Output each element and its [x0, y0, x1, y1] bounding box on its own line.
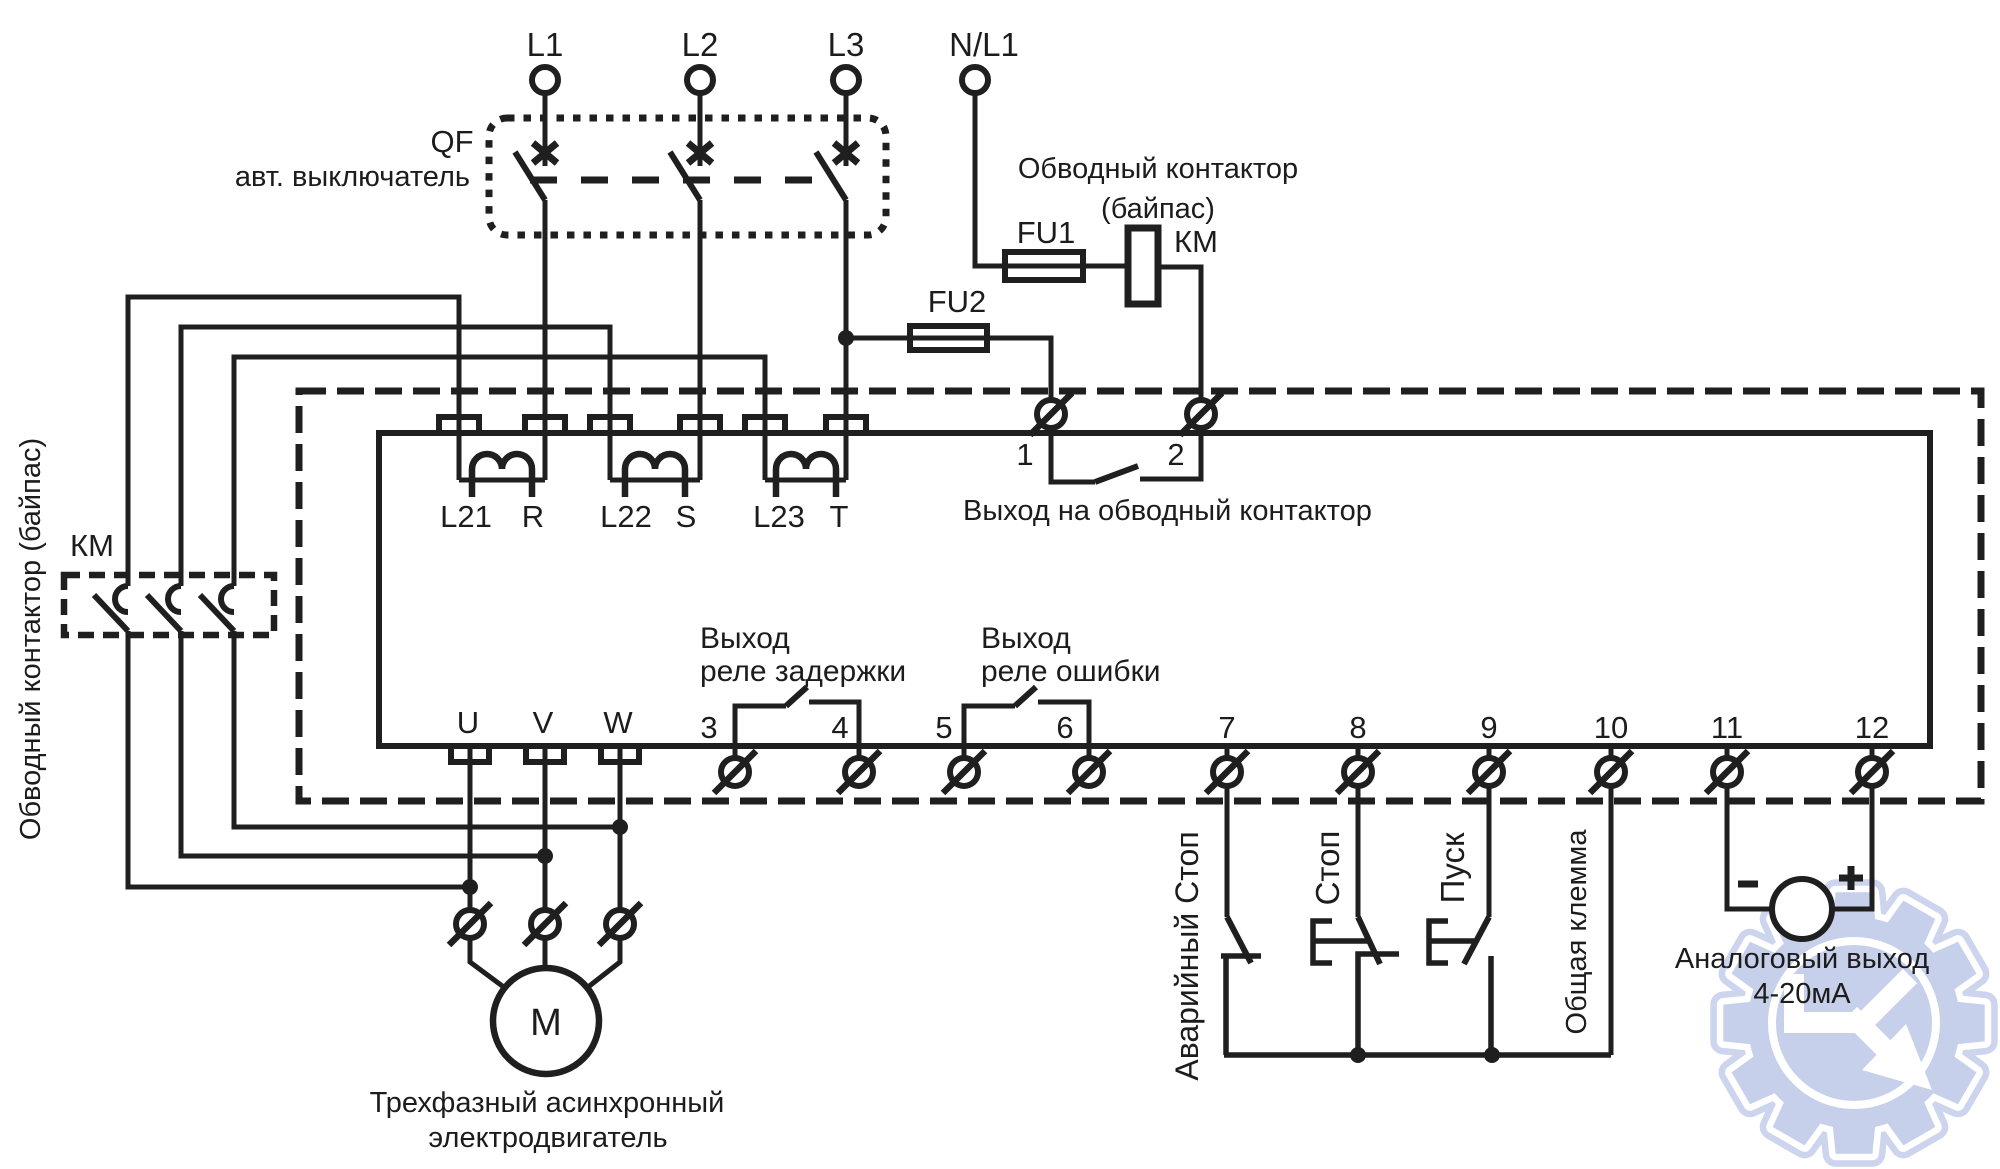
wire phase3 to device	[844, 200, 849, 480]
svg-text:реле ошибки: реле ошибки	[981, 655, 1160, 688]
junction V	[537, 848, 553, 864]
svg-text:Стоп: Стоп	[1309, 831, 1346, 906]
terminal 10	[1597, 758, 1625, 786]
svg-text:Трехфазный асинхронный: Трехфазный асинхронный	[370, 1087, 725, 1119]
svg-text:электродвигатель: электродвигатель	[428, 1122, 667, 1154]
terminal 3 stub	[733, 746, 738, 772]
terminal box L22	[590, 417, 630, 433]
junction bus 8	[1350, 1047, 1366, 1063]
svg-text:9: 9	[1480, 710, 1497, 745]
bypass contactor dashed boundary	[299, 391, 1981, 801]
wire phase1 to device	[543, 200, 548, 480]
terminal box R	[525, 417, 565, 433]
svg-text:L1: L1	[527, 26, 564, 63]
svg-text:реле задержки: реле задержки	[700, 655, 906, 688]
svg-text:авт. выключатель: авт. выключатель	[235, 161, 470, 193]
inductor phase2	[625, 454, 685, 497]
svg-text:L2: L2	[682, 26, 719, 63]
svg-text:8: 8	[1349, 710, 1366, 745]
svg-text:7: 7	[1218, 710, 1235, 745]
node L1	[527, 26, 564, 93]
soft starter device body	[379, 433, 1930, 746]
svg-text:V: V	[533, 705, 554, 740]
wire KM3 to W	[234, 631, 620, 827]
terminal 4	[845, 758, 873, 786]
terminal box L23	[745, 417, 785, 433]
svg-text:L3: L3	[828, 26, 865, 63]
svg-text:N/L1: N/L1	[949, 26, 1019, 63]
phase1 internal bottom	[459, 478, 545, 483]
contactor KM dashed box	[64, 575, 274, 635]
plus sign	[1839, 875, 1863, 882]
junction bus 9	[1484, 1047, 1500, 1063]
terminal 3	[721, 758, 749, 786]
bottom bus	[1224, 1052, 1611, 1058]
breaker linkage	[530, 177, 815, 184]
wire U to motor	[470, 746, 509, 991]
svg-text:L21: L21	[440, 499, 492, 534]
terminal 7	[1213, 758, 1241, 786]
wire L3 drop	[844, 93, 849, 166]
stop button	[1356, 787, 1361, 917]
wire N/L1 drop	[975, 93, 1128, 266]
svg-text:FU2: FU2	[928, 284, 987, 319]
svg-text:Обводный контактор: Обводный контактор	[1018, 153, 1298, 185]
terminal 6 stub	[1087, 746, 1092, 772]
wire loop1 KM to L21	[128, 297, 459, 586]
terminal box U	[451, 746, 489, 762]
minus sign	[1738, 881, 1758, 888]
terminal W slash	[606, 910, 634, 938]
terminal 11	[1713, 758, 1741, 786]
terminal 7 stub	[1225, 746, 1230, 787]
wire W to motor	[583, 746, 620, 991]
KM contact 1	[115, 586, 128, 612]
wire KM coil to terminal 2	[1158, 267, 1201, 400]
terminal box T	[826, 417, 866, 433]
svg-text:FU1: FU1	[1017, 215, 1076, 250]
terminal 2	[1187, 400, 1215, 428]
terminal V slash	[531, 910, 559, 938]
svg-text:Обводный контактор (байпас): Обводный контактор (байпас)	[15, 438, 47, 840]
phase3 internal bottom	[765, 478, 846, 483]
junction L3/FU2	[838, 330, 854, 346]
terminal box W	[601, 746, 639, 762]
breaker pole 3	[834, 143, 858, 163]
emergency stop switch	[1225, 787, 1230, 917]
terminal 8	[1344, 758, 1372, 786]
svg-text:5: 5	[935, 710, 952, 745]
node L3	[828, 26, 865, 93]
junction W	[612, 819, 628, 835]
start button	[1487, 787, 1492, 917]
KM contact 2	[168, 586, 181, 612]
wire V to motor	[543, 746, 548, 968]
terminal 8 stub	[1356, 746, 1361, 787]
KM contact 3	[221, 586, 234, 612]
analog output wires	[1727, 787, 1773, 909]
terminal box S	[680, 417, 720, 433]
node L2	[682, 26, 719, 93]
wire loop3 KM to L23	[234, 357, 765, 586]
wire phase2 to device	[698, 200, 703, 480]
breaker pole 1	[533, 143, 557, 163]
svg-text:Выход на обводный контактор: Выход на обводный контактор	[963, 495, 1372, 527]
terminal 9 stub	[1487, 746, 1492, 787]
motor M	[493, 968, 599, 1074]
terminal 6	[1075, 758, 1103, 786]
junction U	[462, 879, 478, 895]
bypass output contact	[1051, 433, 1095, 482]
svg-text:1: 1	[1016, 437, 1033, 472]
svg-text:2: 2	[1167, 437, 1184, 472]
contactor coil KM	[1128, 228, 1158, 304]
analog meter	[1772, 879, 1832, 939]
svg-text:М: М	[530, 1002, 562, 1044]
svg-text:Общая клемма: Общая клемма	[1561, 829, 1593, 1035]
svg-text:Пуск: Пуск	[1434, 832, 1471, 903]
watermark gear logo	[1723, 892, 1984, 1153]
wire loop2 KM to L22	[181, 327, 610, 586]
svg-text:(байпас): (байпас)	[1101, 193, 1215, 225]
svg-text:4-20мА: 4-20мА	[1753, 978, 1851, 1010]
terminal box L21	[439, 417, 479, 433]
svg-text:12: 12	[1855, 710, 1889, 745]
svg-text:КМ: КМ	[70, 528, 114, 563]
wire L1 drop	[543, 93, 548, 166]
svg-text:L23: L23	[753, 499, 805, 534]
svg-text:Аналоговый выход: Аналоговый выход	[1675, 943, 1929, 975]
terminal 12 stub	[1870, 746, 1875, 787]
node N/L1	[949, 26, 1019, 93]
wire FU2 branch	[846, 338, 1051, 400]
terminal 12	[1858, 758, 1886, 786]
delay relay contact 3-4	[735, 706, 786, 746]
svg-text:W: W	[603, 705, 633, 740]
svg-text:10: 10	[1594, 710, 1628, 745]
svg-text:3: 3	[700, 710, 717, 745]
svg-text:Выход: Выход	[700, 622, 790, 655]
inductor phase3	[776, 454, 836, 497]
common terminal wire	[1609, 787, 1614, 1055]
terminal 10 stub	[1609, 746, 1614, 787]
svg-text:QF: QF	[430, 124, 473, 159]
terminal 5	[950, 758, 978, 786]
circuit breaker QF enclosure	[489, 118, 886, 235]
breaker pole 2	[688, 143, 712, 163]
terminal box V	[526, 746, 564, 762]
svg-text:L22: L22	[600, 499, 652, 534]
svg-text:U: U	[457, 705, 479, 740]
svg-text:S: S	[676, 499, 697, 534]
svg-text:Аварийный Стоп: Аварийный Стоп	[1169, 831, 1205, 1080]
svg-text:4: 4	[831, 710, 848, 745]
terminal 9	[1475, 758, 1503, 786]
svg-text:6: 6	[1056, 710, 1073, 745]
svg-text:Выход: Выход	[981, 622, 1071, 655]
svg-text:T: T	[830, 499, 849, 534]
svg-text:R: R	[522, 499, 544, 534]
terminal U slash	[456, 910, 484, 938]
terminal 4 stub	[857, 746, 862, 772]
wire KM1 to U	[128, 631, 470, 887]
inductor phase1	[472, 454, 532, 497]
wire L2 drop	[698, 93, 703, 166]
fault relay contact 5-6	[964, 706, 1015, 746]
terminal 5 stub	[962, 746, 967, 772]
wire KM2 to V	[181, 631, 545, 856]
phase2 internal bottom	[610, 478, 700, 483]
svg-text:11: 11	[1711, 710, 1743, 745]
terminal 11 stub	[1725, 746, 1730, 787]
svg-text:КМ: КМ	[1174, 224, 1218, 259]
terminal 1	[1037, 400, 1065, 428]
